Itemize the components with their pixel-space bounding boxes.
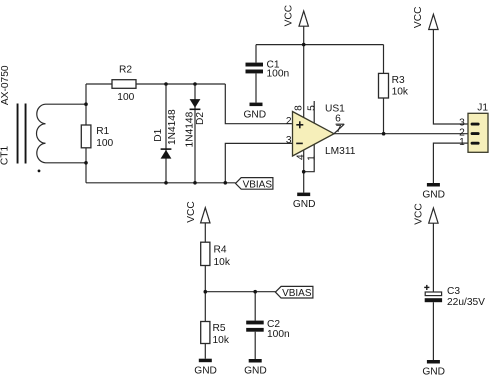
svg-text:VCC: VCC: [283, 5, 294, 27]
svg-text:R1: R1: [96, 126, 109, 137]
svg-text:J1: J1: [477, 103, 488, 114]
svg-text:100: 100: [96, 138, 113, 149]
svg-text:C3: C3: [447, 286, 460, 297]
svg-text:GND: GND: [422, 367, 445, 375]
svg-text:10k: 10k: [214, 257, 231, 268]
svg-text:100: 100: [117, 92, 134, 103]
svg-text:100n: 100n: [267, 68, 290, 79]
svg-text:R2: R2: [119, 65, 132, 76]
svg-text:CT1: CT1: [0, 146, 11, 166]
svg-text:GND: GND: [194, 365, 217, 375]
svg-text:10k: 10k: [213, 335, 230, 346]
svg-text:LM311: LM311: [325, 146, 356, 157]
svg-text:VCC: VCC: [413, 7, 424, 29]
svg-text:VBIAS: VBIAS: [243, 180, 273, 191]
svg-text:VCC: VCC: [414, 203, 425, 225]
svg-text:AX-0750: AX-0750: [0, 65, 11, 105]
svg-text:8: 8: [294, 105, 305, 111]
svg-text:100n: 100n: [267, 329, 290, 340]
svg-text:R4: R4: [214, 244, 227, 255]
svg-text:GND: GND: [243, 110, 266, 121]
svg-text:1: 1: [306, 155, 317, 161]
svg-text:VCC: VCC: [186, 201, 197, 223]
svg-text:1: 1: [459, 137, 465, 148]
svg-text:GND: GND: [293, 199, 316, 210]
svg-text:22u/35V: 22u/35V: [447, 297, 485, 308]
svg-text:1N4148: 1N4148: [185, 111, 196, 147]
svg-text:2: 2: [286, 116, 292, 127]
svg-text:5: 5: [306, 105, 317, 111]
svg-text:R5: R5: [213, 323, 226, 334]
svg-text:D1: D1: [153, 128, 164, 141]
svg-text:10k: 10k: [392, 87, 409, 98]
svg-text:VBIAS: VBIAS: [282, 288, 312, 299]
svg-text:R3: R3: [392, 75, 405, 86]
svg-text:GND: GND: [422, 190, 445, 201]
svg-text:D2: D2: [195, 112, 206, 125]
svg-text:GND: GND: [244, 366, 267, 375]
svg-text:1N4148: 1N4148: [167, 109, 178, 145]
svg-text:3: 3: [286, 135, 292, 146]
svg-text:4: 4: [296, 154, 307, 160]
svg-text:6: 6: [335, 114, 341, 125]
